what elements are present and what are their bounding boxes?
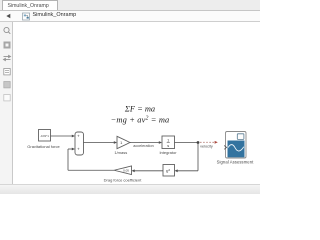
left palette bar — [0, 22, 13, 184]
wire sum to gain — [84, 141, 118, 144]
svg-text:-9.81*1: -9.81*1 — [40, 134, 49, 138]
breadcrumb bar — [0, 11, 260, 22]
palette icon arrows — [4, 55, 11, 60]
breadcrumb back button — [6, 14, 10, 18]
dashed unconnected line to assessment — [200, 141, 215, 143]
bottom status bar — [0, 184, 260, 194]
palette icon image — [4, 82, 10, 88]
svg-text:1: 1 — [167, 138, 169, 143]
constant block Gravitational force — [39, 130, 51, 142]
feedback wire to sum input — [68, 148, 75, 151]
svg-text:Gravitational force: Gravitational force — [27, 144, 60, 149]
svg-text:−mg + av2 = ma: −mg + av2 = ma — [111, 115, 170, 124]
feedback wire up — [67, 149, 69, 170]
wire integrator to junction — [175, 142, 199, 144]
integrator block — [162, 136, 175, 149]
palette icon zoom — [4, 27, 10, 33]
wire to square block — [175, 169, 199, 172]
palette icon empty box — [4, 95, 10, 101]
wire constant to sum — [51, 135, 76, 138]
red open arrow end — [215, 141, 218, 144]
Signal Assessment block — [224, 132, 246, 159]
wire gain to integrator — [130, 141, 162, 144]
breadcrumb text Simulink_Onramp — [33, 12, 77, 18]
wire square to drag gain — [132, 169, 164, 172]
svg-text:+: + — [77, 134, 80, 139]
feedback wire left — [68, 169, 114, 171]
palette icon fit-to-view — [4, 42, 11, 49]
sum block Add — [75, 132, 84, 155]
math function block u^2 — [163, 165, 175, 177]
wire junction down — [197, 143, 199, 171]
svg-text:velocity: velocity — [200, 144, 213, 148]
drag gain block — [114, 166, 132, 175]
document tab bar — [0, 0, 260, 11]
junction node — [197, 141, 200, 144]
svg-text:s: s — [167, 143, 169, 148]
svg-text:Signal Assessment: Signal Assessment — [217, 159, 254, 164]
breadcrumb model icon — [23, 13, 30, 20]
active tab Simulink_Onramp — [2, 0, 58, 10]
svg-text:1/mass: 1/mass — [114, 150, 127, 155]
svg-text:0.05: 0.05 — [123, 169, 129, 173]
svg-text:+: + — [77, 147, 80, 152]
annotation equation line 2 — [111, 115, 170, 124]
svg-text:Drag force coefficient: Drag force coefficient — [104, 177, 143, 182]
svg-text:ΣF = ma: ΣF = ma — [124, 105, 155, 114]
svg-text:acceleration: acceleration — [133, 144, 153, 148]
gain block 1/mass — [117, 136, 130, 148]
svg-text:Integrator: Integrator — [159, 150, 177, 155]
annotation equation line 1 — [124, 105, 155, 114]
palette icon annotation — [4, 69, 10, 75]
